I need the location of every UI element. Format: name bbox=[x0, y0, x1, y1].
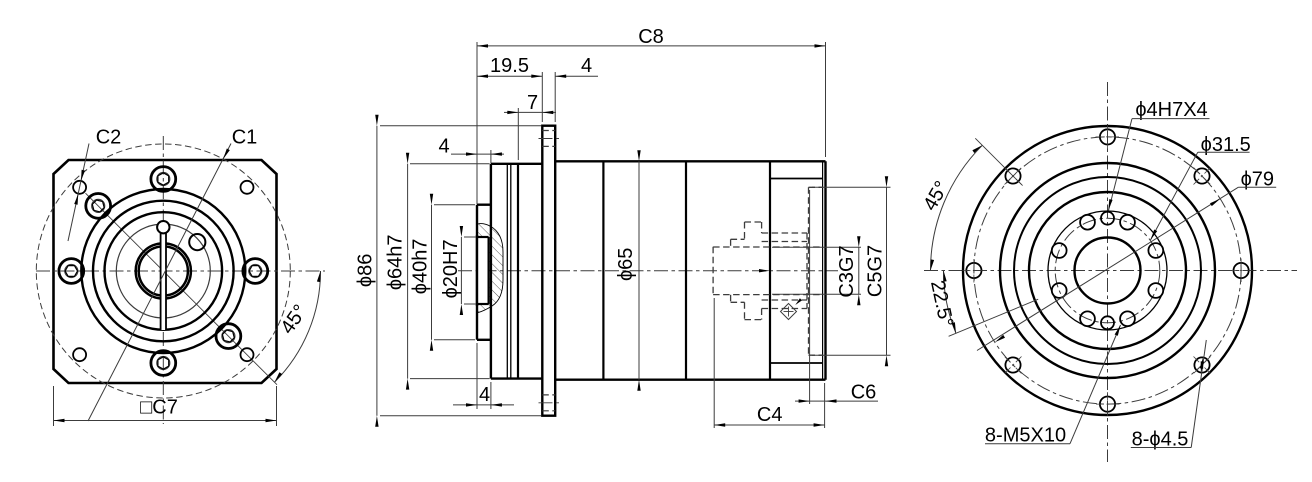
middle view: label C3G7 bbox=[836, 245, 858, 297]
right view: M5 tapped hole at 337.5 deg bbox=[1148, 283, 1163, 298]
middle view: label 4 top bbox=[581, 55, 592, 77]
svg-text:4: 4 bbox=[438, 136, 449, 158]
middle view: housing front ring joint bbox=[517, 164, 519, 379]
left view: square flange outline with chamfered corners bbox=[54, 160, 277, 383]
middle view: dimension 4 (hub protrusion, top) bbox=[451, 150, 504, 163]
middle view: arrowhead on centerline at adapter joint bbox=[759, 269, 770, 272]
middle view: label 4 (hub, bottom) bbox=[479, 384, 490, 406]
middle view: dimension C3G7 bbox=[772, 236, 861, 305]
svg-text:ϕ4H7X4: ϕ4H7X4 bbox=[1135, 99, 1207, 121]
right view: label phi31.5 with underline bbox=[1198, 134, 1251, 156]
middle view: label 7 bbox=[527, 92, 538, 114]
middle view: dimension C6 bbox=[795, 190, 878, 404]
left view: socket head cap screw (top-left) bbox=[86, 194, 111, 219]
left view: output bore inner circle bbox=[139, 246, 188, 295]
middle view: label C8 bbox=[638, 26, 664, 48]
left view: dimension C7 line with arrows bbox=[54, 419, 277, 422]
middle view: C8 extension lines bbox=[477, 42, 826, 204]
middle view: phi20H7 bore rectangle bbox=[477, 235, 489, 306]
right view: bolt circle phi79 (dash-dot) bbox=[974, 137, 1241, 404]
left view: socket head cap screw (bottom-right) bbox=[216, 324, 241, 349]
middle view: coupling clamp step 2 (hidden) bbox=[745, 222, 762, 320]
middle view: label 19.5 bbox=[490, 55, 529, 77]
left view: 45-degree dimension arc bbox=[275, 271, 321, 382]
right view: leader phi31.5 bbox=[1151, 152, 1198, 240]
middle view: dimension phi20H7 bbox=[460, 226, 476, 315]
middle view: label phi20H7 bbox=[440, 239, 462, 298]
left view: label 45 deg bbox=[276, 301, 311, 338]
left view: bearing retainer circle bbox=[105, 212, 223, 330]
middle view: coupling clamp section lines (hidden) bbox=[762, 233, 807, 309]
left view: corner mounting hole C2 (bottom-right) bbox=[241, 348, 254, 361]
middle view: label phi65 bbox=[615, 248, 637, 281]
middle view: horizontal centerline bbox=[458, 270, 838, 272]
middle view: motor adapter inner bore lines bbox=[770, 179, 823, 364]
right view: 22.5-degree dimension arc bbox=[943, 271, 956, 334]
svg-text:7: 7 bbox=[527, 92, 538, 114]
middle view: label phi64h7 bbox=[385, 234, 407, 290]
left view: label square C7 bbox=[140, 397, 178, 419]
svg-text:4: 4 bbox=[581, 55, 592, 77]
middle view: motor-side face inner line bbox=[822, 161, 824, 379]
right view: flange outer circle bbox=[963, 126, 1252, 415]
middle view: dimension phi65 bbox=[637, 150, 640, 390]
svg-text:C8: C8 bbox=[638, 26, 664, 48]
middle view: motor shaft bore C3 (hidden) bbox=[713, 247, 823, 295]
left view: output bore outer circle bbox=[136, 243, 191, 298]
svg-text:ϕ86: ϕ86 bbox=[355, 254, 377, 287]
svg-text:C6: C6 bbox=[851, 382, 877, 404]
right view: hub boss circle bbox=[1048, 211, 1167, 330]
right view: phi4H7 dowel hole at 270 deg bbox=[1101, 316, 1114, 329]
right view: housing circle bbox=[1000, 163, 1215, 378]
middle view: dimension 7 bbox=[504, 108, 556, 160]
right view: phi4.5 hole at 225 deg bbox=[996, 348, 1030, 382]
middle view: dimension C4 bbox=[714, 298, 824, 428]
middle view: dimension phi64h7 bbox=[406, 153, 490, 390]
right view: adapter recess circle bbox=[1014, 177, 1201, 364]
left view: dowel pin hole on output flange bbox=[189, 234, 205, 250]
right view: 45-degree dimension arc bbox=[931, 145, 983, 270]
left view: socket head cap screw (bottom) bbox=[151, 351, 176, 376]
left view: 45-degree diagonal centerline bbox=[86, 193, 278, 385]
left view: dimension C1 leader line bbox=[88, 144, 231, 422]
left view: socket head cap screw (right) bbox=[243, 259, 268, 284]
middle view: motor-side face bbox=[824, 161, 826, 379]
right view: vertical centerline bbox=[1107, 82, 1109, 462]
right view: phi4.5 hole at 270 deg bbox=[1096, 392, 1120, 416]
middle view: housing front section joint bbox=[602, 161, 604, 379]
right view: bolt circle phi31.5 (dash-dot) bbox=[1055, 218, 1160, 323]
left view: inner recess circle bbox=[116, 224, 210, 318]
right view: phi4.5 hole at 180 deg bbox=[962, 259, 986, 283]
left view: dimension C2 leader line bbox=[68, 144, 89, 242]
middle view: housing section joint 1 bbox=[685, 161, 687, 379]
right view: phi4.5 hole at 135 deg bbox=[996, 159, 1030, 193]
right view: M5 tapped hole at 292.5 deg bbox=[1120, 311, 1135, 326]
middle view: dimension 4 (hub protrusion, bottom) bbox=[453, 343, 514, 409]
middle view: phi65 gear housing outline bbox=[555, 161, 825, 379]
right view: M5 tapped hole at 67.5 deg bbox=[1120, 215, 1135, 230]
left view: socket head cap screw (top) bbox=[151, 167, 176, 192]
middle view: label 4 (hub, top) bbox=[438, 136, 449, 158]
middle view: output hub face (phi40h7 flange) bbox=[477, 205, 491, 340]
right view: leader phi79 diameter line bbox=[977, 187, 1238, 350]
middle view: coupling step down to clamp rows (hidden) bbox=[761, 222, 763, 320]
right view: leader phi4H7X4 bbox=[1108, 119, 1132, 211]
left view: phantom max-diameter circle C1 (dashed) bbox=[36, 144, 290, 398]
middle view: dimension C8 bbox=[477, 44, 826, 47]
right view: label phi4H7X4 with underline bbox=[1132, 99, 1210, 121]
right view: 202.5-degree radial construction line bbox=[949, 299, 1039, 336]
left view: clamp slot (keyway) through bore bbox=[160, 229, 166, 330]
svg-text:C1: C1 bbox=[232, 127, 258, 149]
right view: phi4.5 hole at 0 deg bbox=[1229, 259, 1253, 283]
svg-text:C4: C4 bbox=[757, 404, 783, 426]
right view: phi4.5 hole at 45 deg bbox=[1185, 159, 1219, 193]
svg-text:19.5: 19.5 bbox=[490, 55, 529, 77]
middle view: clamp screw symbol (diamond) bbox=[781, 298, 803, 319]
middle view: label phi86 bbox=[355, 254, 377, 287]
right view: center bore circle bbox=[1075, 238, 1141, 304]
middle view: housing section joint 2 (motor adapter) bbox=[769, 161, 771, 379]
middle view: broken-out section hatching around phi20H7 bore bbox=[478, 224, 504, 313]
left view: corner mounting hole C2 (top-right) bbox=[241, 181, 254, 194]
svg-text:ϕ64h7: ϕ64h7 bbox=[385, 234, 407, 290]
middle view: pilot boss top edge bbox=[491, 163, 542, 165]
right view: label 8-phi4.5 with underline bbox=[1131, 429, 1191, 451]
left view: pilot boss circle bbox=[93, 201, 234, 342]
svg-text:C5G7: C5G7 bbox=[865, 245, 887, 297]
middle view: dimension phi40h7 bbox=[430, 194, 475, 351]
middle view: dimension C5G7 bbox=[812, 176, 891, 366]
left view: label C2 bbox=[96, 127, 122, 149]
middle view: phi64h7 pilot boss front face bbox=[490, 164, 492, 379]
right view: label 22.5 deg bbox=[926, 279, 957, 329]
right view: 135-degree radial construction line bbox=[975, 138, 1022, 185]
svg-text:4: 4 bbox=[479, 384, 490, 406]
right view: label 45 deg bbox=[919, 177, 953, 214]
svg-text:C3G7: C3G7 bbox=[836, 245, 858, 297]
middle view: pilot boss bottom edge bbox=[491, 377, 542, 379]
right view: M5 tapped hole at 112.5 deg bbox=[1080, 215, 1095, 230]
left view: vertical centerline bbox=[162, 136, 164, 424]
right view: M5 tapped hole at 247.5 deg bbox=[1080, 311, 1095, 326]
right view: M5 tapped hole at 157.5 deg bbox=[1052, 243, 1067, 258]
right view: bearing housing circle bbox=[1029, 192, 1186, 349]
left view: label C1 bbox=[232, 127, 258, 149]
right view: M5 tapped hole at 202.5 deg bbox=[1052, 283, 1067, 298]
left view: horizontal centerline bbox=[36, 270, 325, 272]
middle view: label C6 bbox=[851, 382, 877, 404]
right view: leader 8-M5X10 bbox=[1070, 325, 1121, 444]
right view: label phi79 with underline bbox=[1238, 169, 1276, 191]
svg-text:□C7: □C7 bbox=[140, 397, 178, 419]
middle view: label C4 bbox=[757, 404, 783, 426]
middle view: coupling right face (hidden) bbox=[806, 233, 808, 309]
middle view: phi86 mounting flange plate bbox=[542, 126, 555, 416]
middle view: dimension 19.5 bbox=[477, 72, 542, 122]
svg-text:ϕ20H7: ϕ20H7 bbox=[440, 239, 462, 298]
middle view: output flange joint lines bbox=[507, 164, 511, 379]
middle view: motor shaft (hidden) end face bbox=[712, 247, 714, 295]
left view: corner mounting hole C2 (bottom-left) bbox=[73, 348, 86, 361]
svg-text:ϕ40h7: ϕ40h7 bbox=[410, 239, 432, 295]
right view: M5 tapped hole at 22.5 deg bbox=[1148, 243, 1163, 258]
middle view: motor pilot recess C5 (hidden) bbox=[809, 187, 824, 355]
middle view: label C5G7 bbox=[865, 245, 887, 297]
svg-text:ϕ65: ϕ65 bbox=[615, 248, 637, 281]
right view: label 8-M5X10 with underline bbox=[985, 425, 1070, 447]
left view: socket head cap screw (left) bbox=[59, 259, 84, 284]
svg-text:C2: C2 bbox=[96, 127, 122, 149]
middle view: flange bolt hole top (hidden) bbox=[539, 131, 560, 147]
right view: phi4H7 dowel hole at 90 deg bbox=[1101, 212, 1114, 225]
middle view: dimension phi86 bbox=[375, 115, 541, 427]
right view: phi4.5 hole at 315 deg bbox=[1185, 348, 1219, 382]
right view: horizontal centerline bbox=[924, 270, 1297, 272]
left view: dimension C7 extension lines bbox=[54, 386, 277, 426]
middle view: flange bolt hole bottom (hidden) bbox=[539, 395, 560, 411]
middle view: label phi40h7 bbox=[410, 239, 432, 295]
left view: flange outer circle bbox=[81, 189, 245, 353]
right view: phi4.5 hole at 90 deg bbox=[1096, 125, 1120, 149]
left view: clamp screw circle at top of slot bbox=[157, 221, 169, 233]
middle view: dimension 4 (flange plate thickness) bbox=[555, 72, 598, 122]
right view: leader 8-phi4.5 bbox=[1191, 340, 1206, 448]
middle view: coupling clamp step 1 (hidden) bbox=[731, 239, 745, 302]
left view: corner mounting hole C2 (top-left) bbox=[73, 181, 86, 194]
